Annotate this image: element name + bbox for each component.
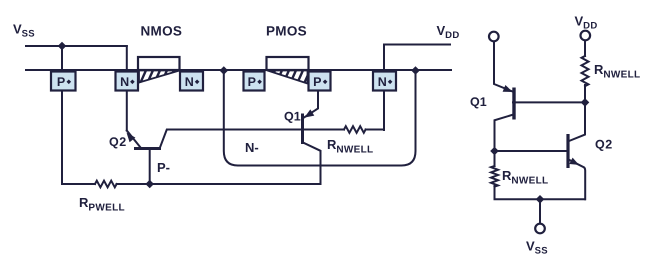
svg-text:RNWELL: RNWELL <box>327 137 373 156</box>
NMOS gate <box>138 57 180 70</box>
terminal VDD (open circle) <box>581 31 591 41</box>
svg-text:RPWELL: RPWELL <box>79 195 125 214</box>
svg-text:N: N <box>378 75 387 89</box>
svg-text:Q2: Q2 <box>109 135 127 149</box>
diffusion box N+ well tap <box>373 72 396 91</box>
svg-text:Q2: Q2 <box>595 138 613 152</box>
wire Q2 emitter to VSS rail <box>570 160 586 199</box>
transistor Q2 (equivalent circuit NPN) <box>568 134 579 168</box>
resistor RNWELL (upper right) <box>582 56 589 86</box>
transistor Q2 (parasitic NPN, cross-section) <box>127 133 162 149</box>
wire Q2 collector to Q1 base <box>160 130 303 148</box>
wire RNWELL to Q1 base node <box>584 85 586 102</box>
N-well boundary outline <box>224 71 416 166</box>
diffusion box N+ NMOS drain <box>180 72 203 91</box>
wire VSS drop to NMOS source N+ and Q2 emitter <box>126 46 128 131</box>
svg-text:Q1: Q1 <box>284 110 301 124</box>
node VSS rail junction <box>58 42 67 51</box>
wire Q1 base <box>513 101 585 103</box>
NMOS channel hatched region <box>139 68 182 86</box>
node VSS rail junction <box>536 195 545 204</box>
wire Q1 base to RNWELL <box>303 129 345 131</box>
resistor RNWELL (cross-section) <box>344 126 366 133</box>
wire RNWELL to VSS rail <box>495 186 586 199</box>
wire node to RNWELL lower <box>494 151 496 166</box>
svg-text:VDD: VDD <box>437 23 460 41</box>
transistor Q1 (equivalent circuit PNP) <box>503 85 514 120</box>
transistor Q1 (parasitic PNP, cross-section) <box>303 109 315 144</box>
svg-text:N: N <box>185 75 194 89</box>
wire VSS terminal lead <box>539 199 541 223</box>
wire RNWELL to N+ well tap <box>366 91 384 130</box>
resistor RPWELL <box>95 181 117 188</box>
svg-text:RNWELL: RNWELL <box>502 168 548 187</box>
svg-text:RNWELL: RNWELL <box>594 62 640 81</box>
diffusion box P+ substrate tap <box>51 72 76 91</box>
wire VDD terminal to RNWELL <box>584 40 586 56</box>
wire VSS rail <box>26 45 127 47</box>
svg-text:P: P <box>248 75 256 89</box>
svg-text:VDD: VDD <box>575 14 598 32</box>
wire P- substrate bottom rail left segment <box>62 183 95 185</box>
wire Q1 emitter terminal lead <box>494 41 513 91</box>
wire Q1 collector node to Q2 base <box>495 150 567 152</box>
svg-text:VSS: VSS <box>13 22 35 40</box>
svg-text:P: P <box>313 75 321 89</box>
svg-text:P-: P- <box>157 160 170 175</box>
svg-text:PMOS: PMOS <box>266 24 307 39</box>
resistor RNWELL (lower right) <box>491 166 498 187</box>
diffusion box P+ PMOS drain <box>244 72 265 91</box>
diffusion box P+ PMOS source <box>309 72 331 91</box>
wire P+ source to Q1 emitter <box>304 91 318 118</box>
node Q2 base / substrate rail junction <box>145 180 154 189</box>
svg-text:Q1: Q1 <box>470 95 487 109</box>
node N-well left surface contact <box>220 66 229 75</box>
wire VDD rail <box>384 44 450 46</box>
wire Q1 collector to substrate rail <box>303 143 321 185</box>
wire P- substrate bottom rail right segment to Q1 collector <box>117 183 321 185</box>
svg-text:N-: N- <box>245 140 259 155</box>
wire Q2 emitter slant <box>127 131 141 148</box>
PMOS gate <box>267 57 309 70</box>
node Q1 base / RNWELL junction <box>581 98 590 107</box>
wire Q1 collector <box>495 115 513 151</box>
svg-text:NMOS: NMOS <box>141 24 183 39</box>
svg-text:VSS: VSS <box>526 239 548 257</box>
terminal VSS (open circle) <box>535 224 545 234</box>
wire Q2 base to substrate rail <box>149 149 151 185</box>
PMOS channel hatched region <box>268 68 312 86</box>
terminal Q1 emitter (open circle) <box>489 32 499 42</box>
wire VSS drop to P+ substrate tap and P-well bottom rail <box>61 46 63 184</box>
node N-well right surface contact <box>411 66 420 75</box>
diffusion box N+ NMOS source <box>116 72 139 91</box>
svg-text:P: P <box>57 75 65 89</box>
svg-text:N: N <box>120 75 129 89</box>
node Q1 collector / Q2 base junction <box>490 147 499 156</box>
wire Q2 collector <box>569 102 585 141</box>
wire silicon surface line <box>26 69 451 71</box>
wire VDD drop to N+ well tap and RNWELL <box>383 45 385 131</box>
